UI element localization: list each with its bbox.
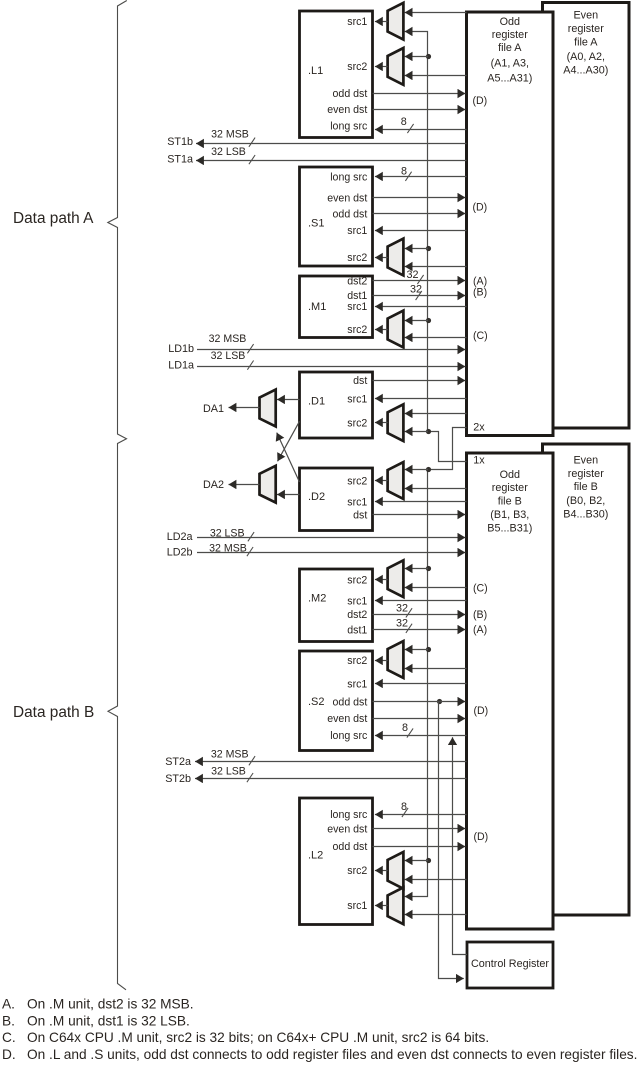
wire mux output to .L1 src2 xyxy=(375,66,388,68)
junction dot 2x at .D2 mux xyxy=(426,467,431,472)
svg-text:(C): (C) xyxy=(473,330,488,342)
svg-text:LD2a: LD2a xyxy=(167,531,193,543)
svg-text:file A: file A xyxy=(498,42,522,54)
svg-text:dst1: dst1 xyxy=(347,624,367,636)
svg-text:even dst: even dst xyxy=(327,823,367,835)
wire .L2 even dst to register file xyxy=(373,828,466,830)
mux .M1 src2 xyxy=(388,311,404,348)
functional unit .L1 box xyxy=(300,11,373,138)
functional unit .L2 box xyxy=(300,798,373,925)
wire .M2 src1 from register file xyxy=(375,600,467,602)
wire LD1b 32 MSB load path xyxy=(197,349,465,351)
svg-text:src2: src2 xyxy=(347,324,367,336)
svg-text:ST2b: ST2b xyxy=(165,773,191,785)
wire .S2 long src 8-bit xyxy=(375,735,467,737)
svg-text:32: 32 xyxy=(396,618,408,630)
svg-text:Even: Even xyxy=(573,9,598,21)
svg-text:register: register xyxy=(492,482,528,494)
wire 1x branch to .L1 src2 mux xyxy=(405,56,428,58)
svg-text:register: register xyxy=(568,468,604,480)
wire .D2 src2 mux input 2 from Odd B xyxy=(405,488,467,490)
bus slash on .L1 long src xyxy=(407,124,413,133)
svg-text:2x: 2x xyxy=(473,421,485,433)
wire ST2b 32 LSB store path xyxy=(195,778,467,780)
wire mux output to .S2 src2 xyxy=(375,660,388,662)
svg-text:Even: Even xyxy=(573,455,598,467)
svg-text:long src: long src xyxy=(330,171,368,183)
svg-text:(D): (D) xyxy=(474,831,489,843)
svg-text:odd dst: odd dst xyxy=(333,88,368,100)
svg-text:(D): (D) xyxy=(473,95,488,107)
svg-text:even dst: even dst xyxy=(327,713,367,725)
wire .D1 to DA1 mux input 1 xyxy=(277,399,300,401)
wire .S2 src1 from register file xyxy=(375,683,467,685)
svg-text:B5...B31): B5...B31) xyxy=(487,523,532,535)
wire LD1a 32 LSB load path xyxy=(197,366,465,368)
wire .S2 odd dst to register file xyxy=(373,701,466,703)
svg-text:src2: src2 xyxy=(347,418,367,430)
svg-text:ST1b: ST1b xyxy=(167,136,193,148)
bus slash on LD1a xyxy=(247,361,253,370)
bus slash on ST1a xyxy=(249,155,255,164)
svg-text:32 LSB: 32 LSB xyxy=(211,146,246,158)
svg-text:dst2: dst2 xyxy=(347,609,367,621)
svg-text:src1: src1 xyxy=(347,596,367,608)
functional unit .M1 box xyxy=(300,276,373,338)
svg-text:LD1b: LD1b xyxy=(168,343,194,355)
svg-text:32: 32 xyxy=(396,602,408,614)
wire .M1 dst1 to register file xyxy=(373,295,466,297)
svg-text:(A): (A) xyxy=(473,275,487,287)
wire 2x branch to .D2 src2 mux xyxy=(405,469,428,471)
bus slash on ST2b xyxy=(247,773,253,782)
svg-text:.D1: .D1 xyxy=(308,396,325,408)
wire .L1 src2 mux input 2 from Odd A xyxy=(405,75,467,77)
svg-text:src2: src2 xyxy=(347,574,367,586)
svg-text:(D): (D) xyxy=(473,201,488,213)
svg-text:On C64x CPU .M unit, src2 is 3: On C64x CPU .M unit, src2 is 32 bits; on… xyxy=(27,1030,489,1045)
mux .D1 src2 xyxy=(388,404,404,441)
wire .D1 dst to register file xyxy=(373,380,466,382)
mux .L2 src2 xyxy=(388,852,404,889)
wire ST1a 32 LSB store path xyxy=(196,160,467,162)
svg-text:even dst: even dst xyxy=(327,193,367,205)
svg-text:32 LSB: 32 LSB xyxy=(211,765,246,777)
wire 2x cross path (Odd A to B-side muxes) xyxy=(405,428,467,897)
svg-text:src1: src1 xyxy=(347,678,367,690)
svg-text:On .L and .S units, odd dst co: On .L and .S units, odd dst connects to … xyxy=(27,1047,637,1062)
footnote B xyxy=(2,1013,190,1028)
wire mux output to .D1 src2 xyxy=(375,422,388,424)
wire .D1 src2 mux input 1 from Odd A xyxy=(405,413,467,415)
svg-text:dst2: dst2 xyxy=(347,276,367,288)
bus slash on .M1 dst2 xyxy=(417,275,423,284)
svg-text:odd dst: odd dst xyxy=(333,841,368,853)
wire mux output to .M2 src2 xyxy=(375,579,388,581)
svg-text:register: register xyxy=(492,29,528,41)
svg-text:(A): (A) xyxy=(473,624,487,636)
wire .S2 odd dst write path to control register xyxy=(439,702,464,979)
functional unit .M2 box xyxy=(300,569,373,642)
svg-text:odd dst: odd dst xyxy=(333,696,368,708)
register file Odd B box xyxy=(467,453,554,929)
svg-text:long src: long src xyxy=(330,730,368,742)
bus slash on .S2 long src xyxy=(407,728,413,737)
wire .D2 dst to register file xyxy=(373,514,466,516)
svg-text:src1: src1 xyxy=(347,496,367,508)
mux .S1 src2 xyxy=(388,239,404,276)
junction dot .S2 odd dst to control register xyxy=(437,699,442,704)
svg-text:dst: dst xyxy=(353,375,367,387)
svg-text:32 MSB: 32 MSB xyxy=(211,129,249,141)
wire .S1 src2 mux input 2 from Odd A xyxy=(405,266,467,268)
wire DA1 output from DA1 mux xyxy=(229,407,260,409)
svg-text:even dst: even dst xyxy=(327,104,367,116)
svg-text:Data path A: Data path A xyxy=(13,210,94,227)
junction dot 2x at .S2 mux xyxy=(426,647,431,652)
svg-text:32 MSB: 32 MSB xyxy=(211,749,249,761)
bus slash on .L2 long src xyxy=(402,808,408,817)
svg-text:src2: src2 xyxy=(347,865,367,877)
wire .M1 src1 from register file xyxy=(375,306,467,308)
svg-text:Control Register: Control Register xyxy=(471,958,549,970)
svg-text:(B): (B) xyxy=(473,287,487,299)
register file Odd A label xyxy=(487,16,532,85)
wire ST1b 32 MSB store path xyxy=(196,143,467,145)
svg-text:file A: file A xyxy=(574,36,598,48)
mux .S2 src2 xyxy=(388,641,404,678)
svg-text:B.: B. xyxy=(2,1013,15,1028)
svg-text:(D): (D) xyxy=(474,705,489,717)
svg-text:src1: src1 xyxy=(347,16,367,28)
svg-text:.M2: .M2 xyxy=(308,593,326,605)
svg-text:DA2: DA2 xyxy=(203,479,224,491)
svg-text:Odd: Odd xyxy=(500,16,520,28)
wire mux output to .L1 src1 xyxy=(375,21,388,23)
brace data path A and B xyxy=(108,1,127,990)
wire .S2 even dst to register file xyxy=(373,718,466,720)
mux DA1 xyxy=(260,390,276,427)
svg-text:long src: long src xyxy=(330,121,368,133)
wire 2x branch to .M2 src2 mux xyxy=(405,568,428,570)
wire control register read path to .S2 long src xyxy=(453,737,468,954)
wire mux output to .L2 src1 xyxy=(375,905,388,907)
wire mux output to .D2 src2 xyxy=(375,480,388,482)
wire .S1 even dst to register file xyxy=(373,197,466,199)
footnote D xyxy=(2,1047,637,1062)
svg-text:A.: A. xyxy=(2,997,15,1012)
wire mux output to .L2 src2 xyxy=(375,870,388,872)
svg-text:.M1: .M1 xyxy=(308,301,326,313)
mux .L1 src1 xyxy=(388,3,404,40)
wire .D2 src1 from register file xyxy=(375,501,467,503)
svg-text:32 MSB: 32 MSB xyxy=(209,333,247,345)
wire .L2 src1 mux input 2 from Odd B xyxy=(405,914,467,916)
svg-text:src1: src1 xyxy=(347,301,367,313)
svg-text:1x: 1x xyxy=(473,454,485,466)
functional unit .D2 box xyxy=(300,468,373,531)
functional unit .S2 box xyxy=(300,651,373,751)
svg-text:(A0, A2,: (A0, A2, xyxy=(567,51,605,63)
wire .L2 src2 mux input 2 from Odd B xyxy=(405,879,467,881)
svg-text:file B: file B xyxy=(498,496,522,508)
wire .M2 dst1 to register file xyxy=(373,629,466,631)
mux .L2 src1 xyxy=(388,887,404,924)
svg-text:B4...B30): B4...B30) xyxy=(563,508,608,520)
svg-text:Odd: Odd xyxy=(500,469,520,481)
svg-text:8: 8 xyxy=(401,116,407,128)
bus slash on LD2b xyxy=(247,547,253,556)
svg-text:odd dst: odd dst xyxy=(333,208,368,220)
register file Odd A box xyxy=(467,12,554,436)
svg-text:.D2: .D2 xyxy=(308,491,325,503)
svg-text:8: 8 xyxy=(402,722,408,734)
svg-text:C.: C. xyxy=(2,1030,16,1045)
wire mux output to .S1 src2 xyxy=(375,257,388,259)
svg-text:32 LSB: 32 LSB xyxy=(210,527,245,539)
svg-text:register: register xyxy=(568,23,604,35)
mux DA2 xyxy=(260,466,276,503)
junction dot 2x at .M2 mux xyxy=(426,566,431,571)
wire mux output to .M1 src2 xyxy=(375,329,388,331)
wire .D1 src1 from register file xyxy=(375,398,467,400)
wire DA2 output from DA2 mux xyxy=(229,484,260,486)
wire .S2 src2 mux input 2 from Odd B xyxy=(405,668,467,670)
svg-text:src1: src1 xyxy=(347,900,367,912)
svg-text:(B1, B3,: (B1, B3, xyxy=(490,509,529,521)
functional unit .S1 box xyxy=(300,167,373,266)
svg-text:On .M unit, dst2 is 32 MSB.: On .M unit, dst2 is 32 MSB. xyxy=(27,997,194,1012)
wire 1x branch to .D1 src2 mux xyxy=(405,431,428,433)
svg-text:8: 8 xyxy=(401,165,407,177)
wire .S1 odd dst to register file xyxy=(373,213,466,215)
svg-text:ST2a: ST2a xyxy=(165,756,191,768)
junction dot 1x at .L1 src2 mux xyxy=(426,54,431,59)
junction dot 2x at .L2 src2 mux xyxy=(426,858,431,863)
svg-text:.L2: .L2 xyxy=(308,850,323,862)
wire .D1 to DA2 mux cross (diagonal) xyxy=(278,421,300,461)
bus slash on ST1b xyxy=(249,138,255,147)
svg-text:(B0, B2,: (B0, B2, xyxy=(566,495,605,507)
svg-text:On .M unit, dst1 is 32 LSB.: On .M unit, dst1 is 32 LSB. xyxy=(27,1013,190,1028)
bus slash on LD2a xyxy=(248,532,254,541)
bus slash on .M2 dst1 xyxy=(406,624,412,633)
wire 2x branch to .L2 src2 mux xyxy=(405,860,428,862)
bus slash on LD1b xyxy=(247,344,253,353)
bus slash on ST2a xyxy=(249,756,255,765)
wire .M1 src2 mux input 2 from Odd A xyxy=(405,337,467,339)
wire .L2 long src 8-bit xyxy=(375,814,467,816)
wire .L2 odd dst to register file xyxy=(373,846,466,848)
junction dot 1x at .M1 src2 mux xyxy=(426,318,431,323)
register file Even B box xyxy=(543,444,630,915)
wire .M2 dst2 to register file xyxy=(373,614,466,616)
junction dot 1x at .S1 src2 mux xyxy=(426,246,431,251)
svg-text:src1: src1 xyxy=(347,393,367,405)
svg-text:src2: src2 xyxy=(347,252,367,264)
wire .S1 long src 8-bit xyxy=(375,176,467,178)
wire .S1 src1 from register file xyxy=(375,230,467,232)
wire .L1 src1 mux input 1 from Odd A xyxy=(405,12,467,14)
register file Even A label xyxy=(563,9,608,76)
svg-text:dst: dst xyxy=(353,510,367,522)
svg-text:32: 32 xyxy=(406,269,418,281)
wire LD2a 32 LSB load path xyxy=(197,537,465,539)
wire 1x branch to .M1 src2 mux xyxy=(405,320,428,322)
svg-text:.S2: .S2 xyxy=(308,696,325,708)
wire .D2 to DA2 mux input 2 xyxy=(277,494,300,496)
svg-text:dst1: dst1 xyxy=(347,290,367,302)
svg-text:src2: src2 xyxy=(347,475,367,487)
svg-text:src2: src2 xyxy=(347,655,367,667)
svg-text:src1: src1 xyxy=(347,225,367,237)
wire LD2b 32 MSB load path xyxy=(197,552,465,554)
svg-text:A4...A30): A4...A30) xyxy=(563,64,608,76)
svg-text:(A1, A3,: (A1, A3, xyxy=(491,57,529,69)
svg-text:long src: long src xyxy=(330,809,368,821)
svg-text:ST1a: ST1a xyxy=(167,154,193,166)
control register box xyxy=(467,942,553,988)
svg-text:Data path B: Data path B xyxy=(13,704,94,721)
svg-text:.S1: .S1 xyxy=(308,218,325,230)
bus slash on .M2 dst2 xyxy=(406,608,412,617)
svg-text:LD2b: LD2b xyxy=(167,546,193,558)
register file Even A box xyxy=(543,3,630,429)
svg-text:A5...A31): A5...A31) xyxy=(487,72,532,84)
svg-text:32 MSB: 32 MSB xyxy=(209,542,247,554)
mux .D2 src2 xyxy=(388,462,404,499)
wire ST2a 32 MSB store path xyxy=(195,761,467,763)
wire .L1 long src 8-bit xyxy=(375,129,467,131)
functional unit .D1 box xyxy=(300,372,373,438)
svg-text:DA1: DA1 xyxy=(203,403,224,415)
wire 1x cross path (Odd B to A-side muxes) xyxy=(405,32,467,462)
wire .L1 even dst to register file xyxy=(373,109,466,111)
svg-text:D.: D. xyxy=(2,1047,16,1062)
footnote C xyxy=(2,1030,489,1045)
svg-text:file B: file B xyxy=(574,481,598,493)
wire .M2 src2 mux input 2 from Odd B xyxy=(405,587,467,589)
svg-text:32 LSB: 32 LSB xyxy=(211,350,246,362)
junction dot 1x at .D1 mux xyxy=(426,429,431,434)
wire .L1 odd dst to register file xyxy=(373,93,466,95)
bus slash on .M1 dst1 xyxy=(416,291,422,300)
bus slash on .S1 long src xyxy=(405,172,411,181)
wire 2x branch to .S2 src2 mux xyxy=(405,649,428,651)
mux .L1 src2 xyxy=(388,48,404,85)
footnote A xyxy=(2,997,194,1012)
wire .D2 to DA1 mux cross (diagonal) xyxy=(277,433,300,482)
wire .M1 dst2 to register file xyxy=(373,280,466,282)
register file Odd B label xyxy=(487,469,532,535)
svg-text:.L1: .L1 xyxy=(308,65,323,77)
svg-text:LD1a: LD1a xyxy=(168,359,194,371)
svg-text:src2: src2 xyxy=(347,61,367,73)
wire 1x branch to .S1 src2 mux xyxy=(405,248,428,250)
svg-text:(B): (B) xyxy=(473,609,487,621)
svg-text:(C): (C) xyxy=(473,583,488,595)
mux .M2 src2 xyxy=(388,560,404,597)
register file Even B label xyxy=(563,455,608,521)
